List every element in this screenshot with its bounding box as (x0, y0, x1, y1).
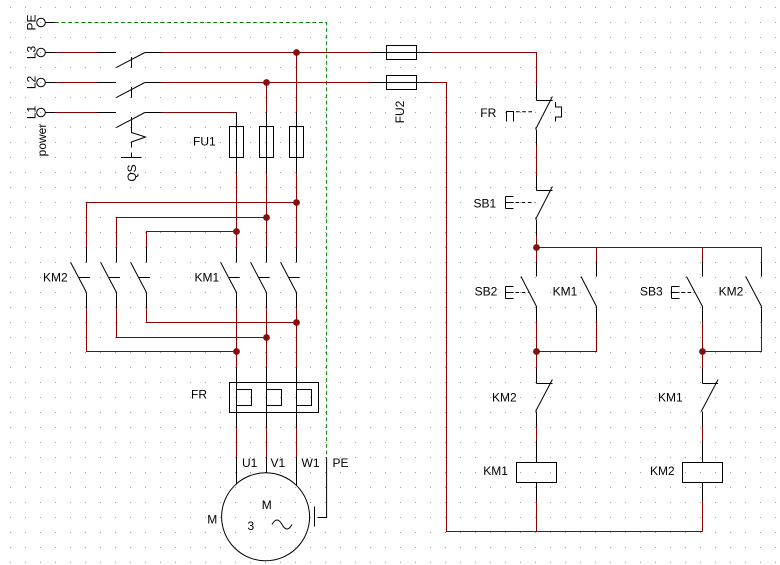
contactor KM1 pole2 (251, 248, 270, 308)
SB2 mechanical link (516, 292, 529, 294)
svg-text:L3: L3 (25, 46, 39, 60)
wire KM2 pole2 top cross (117, 218, 267, 248)
node KM2 top L1 (233, 228, 240, 235)
terminal PE (37, 18, 55, 27)
fuse FU1 pole a (230, 113, 244, 173)
wire SB2 to node (536, 322, 538, 369)
wire U to motor (236, 428, 238, 458)
node SB1 bus junction (533, 244, 540, 251)
node L3/FU1c junction (293, 49, 300, 56)
svg-text:SB2: SB2 (475, 284, 498, 298)
svg-text:KM1: KM1 (483, 464, 508, 478)
motor pin U1 (236, 458, 238, 484)
motor pin V1 (266, 458, 268, 473)
coil KM1 (517, 441, 557, 501)
svg-text:FR: FR (480, 106, 496, 120)
wire KM2 pole3 top cross (147, 232, 237, 248)
svg-text:KM1: KM1 (195, 270, 220, 284)
contactor KM2 pole3 (131, 248, 150, 308)
pushbutton SB3 (NO start rev) (672, 262, 703, 322)
motor PE terminal bar (314, 507, 316, 527)
svg-text:QS: QS (125, 164, 139, 181)
wire KM2 pole1 bottom cross (87, 308, 237, 352)
svg-text:KM1: KM1 (553, 284, 578, 298)
node KM2 top L2 (263, 214, 270, 221)
wire KM2 pole3 bottom cross (147, 308, 297, 323)
pushbutton SB2 (NO start fwd) (506, 262, 537, 322)
wire KM2 NC to coil (536, 427, 538, 441)
svg-text:KM2: KM2 (492, 391, 517, 405)
svg-text:FU2: FU2 (393, 100, 407, 123)
bus stub to SB3 (702, 248, 704, 262)
wire KM2 pole1 top cross (87, 203, 297, 248)
terminal L2 (37, 78, 55, 87)
wire U column lower (236, 308, 238, 368)
wire L2 QS to FU2 (162, 82, 372, 84)
svg-text:U1: U1 (242, 456, 258, 470)
node KM2 bottom U (233, 348, 240, 355)
node KM2 top L3 (293, 199, 300, 206)
svg-text:M: M (207, 512, 217, 526)
wire L3 down to FU1c (296, 53, 298, 113)
relay contact FR (NC) (507, 86, 562, 146)
wire KM2 coil to bottom line (702, 501, 704, 532)
wire V column lower (266, 308, 268, 368)
motor pin W1 (296, 458, 298, 486)
contactor KM2 pole2 (101, 248, 120, 308)
svg-text:PE: PE (25, 14, 39, 30)
wire L2 to QS (55, 82, 97, 84)
wire KM1 coil to bottom line (536, 501, 538, 532)
wire KM2 aux rejoin (703, 322, 762, 352)
control bus wire (537, 248, 762, 262)
switch QS pole L2 (97, 83, 162, 98)
contactor KM2 aux contact (NO) (746, 262, 762, 322)
wire KM1 NC to coil (702, 427, 704, 441)
bus stub to KM1 aux (596, 248, 598, 262)
wire L1 QS to FU1 (162, 112, 237, 114)
switch QS pole L1 (97, 113, 162, 128)
motor sine symbol (272, 520, 292, 529)
svg-text:SB3: SB3 (640, 284, 663, 298)
thermal relay FR heaters (230, 368, 319, 428)
svg-text:KM2: KM2 (650, 464, 675, 478)
pushbutton SB1 (NC stop) (506, 176, 553, 236)
wire FU2a to FR contact (432, 53, 537, 86)
svg-text:3: 3 (248, 519, 255, 533)
wire L1 to QS (55, 112, 97, 114)
wire FU2b return to coil bottoms (432, 83, 703, 532)
node KM2 bottom V (263, 334, 270, 341)
motor M circle (222, 473, 310, 561)
contactor KM1 pole3 (281, 248, 300, 308)
terminal L1 (37, 108, 55, 117)
fuse FU1 pole c (290, 113, 304, 173)
svg-text:L2: L2 (25, 76, 39, 90)
fuse FU2 pole a (371, 46, 432, 60)
interlock contact KM1 (NC) (701, 369, 718, 427)
svg-text:KM2: KM2 (719, 284, 744, 298)
svg-text:FR: FR (191, 387, 207, 401)
contactor KM1 aux contact (NO) (581, 262, 597, 322)
switch QS linkage handle (121, 128, 146, 158)
wire V to motor (266, 428, 268, 458)
svg-text:PE: PE (333, 456, 349, 470)
wire L3 QS to FU2 (162, 52, 372, 54)
svg-text:M: M (262, 498, 272, 512)
svg-text:V1: V1 (271, 456, 286, 470)
switch QS pole L3 (97, 53, 162, 68)
wire SB1 to bus (536, 236, 538, 262)
node KM2 bottom W (293, 319, 300, 326)
wire PE motor tail (318, 458, 327, 518)
svg-text:SB1: SB1 (474, 196, 497, 210)
fuse FU2 pole b (371, 76, 432, 90)
wire KM2 pole2 bottom cross (117, 308, 267, 338)
interlock contact KM2 (NC) (536, 369, 553, 427)
wire KM1 aux rejoin (537, 322, 597, 352)
fuse FU1 pole b (260, 113, 274, 173)
wire V column upper (266, 173, 268, 248)
svg-text:KM2: KM2 (43, 270, 68, 284)
node L2/FU1b junction (263, 79, 270, 86)
terminal L3 (37, 48, 55, 57)
wire L2 down to FU1b (266, 83, 268, 113)
node SB3/KM2aux (699, 348, 706, 355)
SB1 mechanical link (516, 202, 535, 204)
node SB2/KM1aux (533, 348, 540, 355)
contactor KM1 pole1 (221, 248, 240, 308)
wire L3 to QS (55, 52, 97, 54)
wire PE (green dashed) (55, 23, 327, 458)
svg-text:W1: W1 (302, 456, 320, 470)
wire FR to SB1 (536, 146, 538, 176)
contactor KM2 pole1 (71, 248, 90, 308)
svg-text:KM1: KM1 (658, 391, 683, 405)
svg-text:L1: L1 (25, 106, 39, 120)
wire W column upper (296, 173, 298, 248)
FR mechanical link (516, 111, 534, 113)
wire U column upper (236, 173, 238, 248)
SB3 mechanical link (681, 292, 694, 294)
svg-text:power: power (35, 124, 49, 157)
wire SB3 to node (702, 322, 704, 369)
svg-text:FU1: FU1 (193, 135, 216, 149)
wire W to motor (296, 428, 298, 458)
coil KM2 (683, 441, 723, 501)
wire W column lower (296, 308, 298, 368)
